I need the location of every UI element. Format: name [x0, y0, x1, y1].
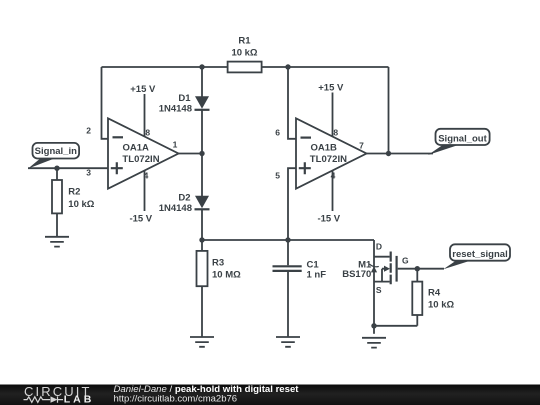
node OA1B output junction — [386, 151, 391, 156]
node junction top-right (pin6 drop) — [285, 64, 290, 69]
svg-text:5: 5 — [275, 171, 280, 181]
svg-text:LAB: LAB — [64, 394, 92, 405]
resistor R1 — [228, 36, 262, 73]
svg-text:4: 4 — [331, 171, 336, 181]
node junction C1 — [285, 237, 290, 242]
OA1B +15V supply — [318, 83, 344, 138]
svg-text:10 MΩ: 10 MΩ — [212, 270, 241, 281]
svg-text:10 kΩ: 10 kΩ — [68, 199, 94, 210]
svg-text:10 kΩ: 10 kΩ — [428, 299, 454, 310]
ground below R3 — [190, 337, 214, 347]
svg-text:S: S — [376, 285, 382, 295]
node junction R3 — [199, 237, 204, 242]
svg-text:TL072IN: TL072IN — [310, 154, 347, 165]
OA1A +15V supply — [130, 84, 156, 138]
node junction R2 tap — [54, 166, 59, 171]
node junction R4 tap — [415, 266, 420, 271]
svg-text:8: 8 — [145, 127, 150, 137]
svg-text:+15 V: +15 V — [130, 84, 156, 95]
wire D1 chain — [201, 67, 203, 240]
svg-text:R3: R3 — [212, 258, 224, 269]
svg-text:OA1A: OA1A — [123, 142, 150, 153]
svg-text:4: 4 — [144, 170, 149, 180]
svg-text:OA1B: OA1B — [311, 142, 338, 153]
resistor R4 — [374, 269, 454, 326]
svg-text:1 nF: 1 nF — [307, 270, 327, 281]
ground below C1 — [276, 337, 300, 347]
svg-text:-15 V: -15 V — [129, 213, 152, 224]
svg-text:TL072IN: TL072IN — [122, 154, 159, 165]
svg-text:R1: R1 — [238, 36, 251, 47]
resistor R2 — [52, 168, 95, 237]
svg-text:7: 7 — [359, 141, 364, 151]
svg-text:1N4148: 1N4148 — [159, 203, 192, 214]
OA1A -15V supply — [129, 170, 152, 224]
ground below M1 — [362, 338, 386, 348]
flag Signal_out — [428, 129, 490, 155]
wire top feedback horizontal — [102, 66, 389, 68]
wire bottom bus — [202, 239, 374, 241]
svg-text:G: G — [402, 255, 409, 265]
wire OA1B non-inverting input — [288, 168, 296, 240]
svg-text:D2: D2 — [178, 192, 190, 203]
svg-text:D1: D1 — [178, 93, 191, 104]
wire OA1B output — [367, 153, 434, 155]
node junction top-left (D1 chain to top wire) — [199, 64, 204, 69]
wire OA1A inverting input — [102, 67, 109, 139]
diode D1 1N4148 — [159, 93, 210, 115]
op-amp OA1B — [296, 118, 367, 188]
logo CIRCUIT LAB — [24, 384, 92, 405]
wire OA1B inverting input — [288, 67, 296, 139]
resistor R3 — [197, 240, 242, 337]
wire Signal_in to OA1A non-inverting input — [28, 167, 108, 169]
svg-text:6: 6 — [275, 127, 280, 137]
svg-text:R4: R4 — [428, 288, 441, 299]
svg-text:1: 1 — [173, 140, 178, 150]
svg-text:8: 8 — [333, 127, 338, 137]
svg-text:D: D — [376, 242, 382, 252]
wire feedback right vertical — [388, 67, 390, 154]
svg-text:http://circuitlab.com/cma2b76: http://circuitlab.com/cma2b76 — [114, 394, 238, 405]
svg-text:R2: R2 — [68, 187, 80, 198]
svg-text:3: 3 — [86, 168, 91, 178]
svg-text:2: 2 — [86, 126, 91, 136]
svg-text:-15 V: -15 V — [317, 213, 340, 224]
transistor M1 BS170 — [342, 240, 409, 334]
svg-text:Signal_out: Signal_out — [438, 133, 487, 144]
svg-text:10 kΩ: 10 kΩ — [231, 47, 257, 58]
node OA1A output junction — [199, 151, 204, 156]
svg-text:reset_signal: reset_signal — [452, 249, 507, 260]
wire OA1A output — [179, 153, 203, 155]
svg-text:1N4148: 1N4148 — [159, 103, 192, 114]
svg-text:+15 V: +15 V — [318, 83, 344, 94]
diode D2 1N4148 — [159, 192, 210, 214]
svg-text:BS170: BS170 — [342, 269, 371, 280]
capacitor C1 — [273, 240, 327, 337]
wire M1 gate — [398, 268, 444, 270]
svg-text:Signal_in: Signal_in — [35, 146, 77, 157]
node junction M1 source / R4 — [371, 323, 376, 328]
OA1B -15V supply — [317, 171, 340, 225]
flag reset_signal — [443, 244, 510, 269]
flag Signal_in — [28, 143, 79, 169]
ground below R2 — [45, 237, 69, 247]
op-amp OA1A — [108, 118, 179, 188]
